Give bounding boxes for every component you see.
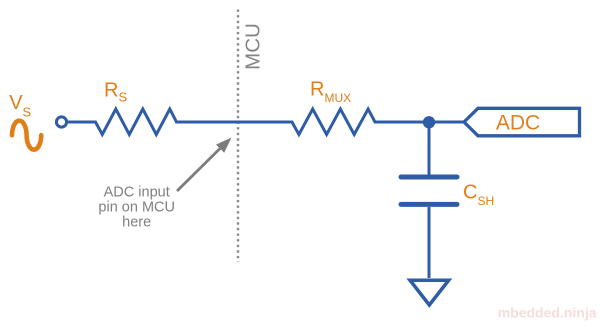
svg-text:ADC: ADC (496, 112, 540, 135)
svg-text:MCU: MCU (241, 23, 264, 70)
svg-text:pin on MCU: pin on MCU (98, 200, 175, 216)
svg-text:here: here (122, 214, 151, 230)
svg-text:mbedded.ninja: mbedded.ninja (498, 305, 597, 321)
svg-text:ADC input: ADC input (104, 185, 170, 201)
